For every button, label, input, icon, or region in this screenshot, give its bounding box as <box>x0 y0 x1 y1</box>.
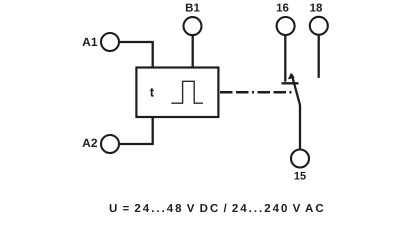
terminal A2 <box>101 135 119 153</box>
terminal 15 <box>291 150 309 168</box>
terminal 16 <box>277 17 295 35</box>
wire A1 to box <box>120 42 153 67</box>
pulse symbol <box>171 81 203 103</box>
svg-text:U = 24...48 V DC / 24...240 V: U = 24...48 V DC / 24...240 V AC <box>109 203 326 215</box>
svg-text:A2: A2 <box>82 136 98 150</box>
svg-text:B1: B1 <box>185 3 200 15</box>
wire B1 to box <box>192 36 194 67</box>
wire terminal 16 <box>284 36 286 82</box>
wire terminal 18 <box>318 36 320 78</box>
wire A2 to box <box>120 117 153 144</box>
blade arrowhead <box>288 73 295 80</box>
svg-text:15: 15 <box>294 171 306 183</box>
dash-dot mechanical link <box>220 91 294 94</box>
terminal A1 <box>101 33 119 51</box>
svg-text:A1: A1 <box>82 35 98 49</box>
switch blade 15 <box>292 75 300 149</box>
svg-text:16: 16 <box>276 3 289 15</box>
timer function box <box>136 68 218 118</box>
terminal B1 <box>184 17 202 35</box>
svg-text:18: 18 <box>310 3 323 15</box>
contact 16 bar <box>282 82 299 84</box>
terminal 18 <box>310 17 328 35</box>
svg-text:t: t <box>150 84 155 99</box>
